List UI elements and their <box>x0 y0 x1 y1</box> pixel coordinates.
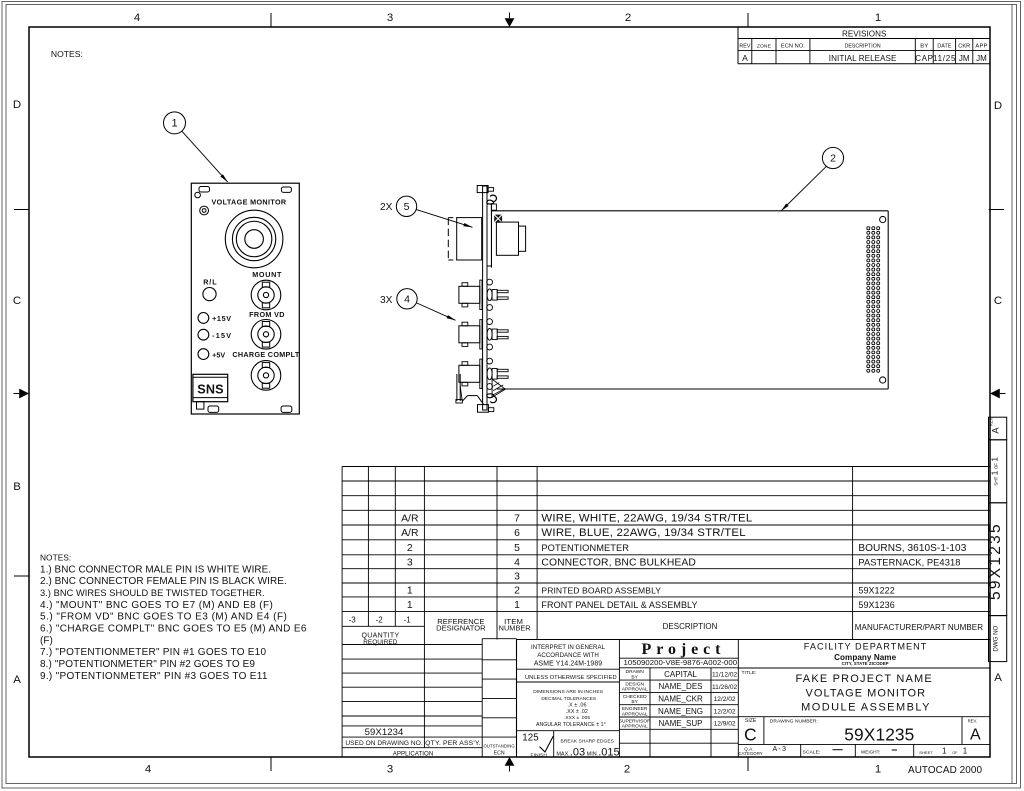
svg-text:ECN: ECN <box>494 751 505 757</box>
svg-text:CKR: CKR <box>958 44 970 50</box>
svg-text:DECIMAL TOLERANCES: DECIMAL TOLERANCES <box>541 696 596 701</box>
svg-text:2: 2 <box>624 764 630 776</box>
svg-text:BY: BY <box>920 44 928 50</box>
svg-text:3X: 3X <box>380 295 393 306</box>
svg-text:APPROVAL: APPROVAL <box>622 711 648 717</box>
svg-text:9.) "POTENTIONMETER" PIN #3 GO: 9.) "POTENTIONMETER" PIN #3 GOES TO E11 <box>40 671 268 682</box>
svg-text:A/R: A/R <box>401 513 419 524</box>
svg-text:1: 1 <box>963 747 968 756</box>
svg-text:59X1236: 59X1236 <box>858 600 894 610</box>
svg-text:ZONE: ZONE <box>757 44 772 50</box>
svg-text:CATEGORY: CATEGORY <box>739 751 763 756</box>
svg-text:105090200-V8E-9876-A002-000: 105090200-V8E-9876-A002-000 <box>624 658 738 667</box>
svg-text:VOLTAGE MONITOR: VOLTAGE MONITOR <box>806 687 926 699</box>
svg-text:5: 5 <box>514 543 520 554</box>
svg-text:NAME_ENG: NAME_ENG <box>658 707 703 716</box>
svg-text:8.) "POTENTIONMETER" PIN #2 GO: 8.) "POTENTIONMETER" PIN #2 GOES TO E9 <box>40 659 255 670</box>
svg-text:1: 1 <box>875 12 881 24</box>
svg-text:-2: -2 <box>376 616 384 625</box>
svg-text:OUTSTANDING: OUTSTANDING <box>484 744 516 749</box>
svg-text:ACCORDANCE WITH: ACCORDANCE WITH <box>537 652 599 659</box>
svg-text:FAKE PROJECT NAME: FAKE PROJECT NAME <box>796 673 932 685</box>
svg-text:A/R: A/R <box>401 528 419 539</box>
svg-text:NOTES:: NOTES: <box>40 553 71 563</box>
svg-text:7.) "POTENTIONMETER" PIN #1 GO: 7.) "POTENTIONMETER" PIN #1 GOES TO E10 <box>40 647 266 658</box>
svg-text:QTY. PER ASS'Y.: QTY. PER ASS'Y. <box>425 740 481 747</box>
svg-text:INITIAL RELEASE: INITIAL RELEASE <box>829 54 897 63</box>
svg-text:1: 1 <box>875 764 881 776</box>
svg-text:12/2/02: 12/2/02 <box>714 708 736 715</box>
svg-text:NOTES:: NOTES: <box>51 49 83 59</box>
svg-text:C: C <box>744 725 757 745</box>
svg-text:FRONT PANEL DETAIL & ASSEMBLY: FRONT PANEL DETAIL & ASSEMBLY <box>541 600 697 610</box>
svg-text:11/12/02: 11/12/02 <box>712 671 738 678</box>
svg-text:6.) "CHARGE COMPLT" BNC GOES T: 6.) "CHARGE COMPLT" BNC GOES TO E5 (M) A… <box>40 624 307 635</box>
svg-text:.XX ± .02: .XX ± .02 <box>566 709 588 715</box>
svg-text:11/26/02: 11/26/02 <box>712 684 738 691</box>
svg-text:.X ± .06: .X ± .06 <box>567 703 586 709</box>
svg-text:FINISH: FINISH <box>531 753 548 759</box>
svg-text:DESCRIPTION: DESCRIPTION <box>845 44 881 50</box>
svg-text:INTERPRET IN GENERAL: INTERPRET IN GENERAL <box>531 644 606 651</box>
svg-text:A: A <box>742 53 748 63</box>
svg-text:125: 125 <box>522 732 538 743</box>
svg-text:PASTERNACK, PE4318: PASTERNACK, PE4318 <box>858 558 960 568</box>
svg-text:CITY, STATE ZICODEP: CITY, STATE ZICODEP <box>842 661 889 666</box>
svg-text:SCALE:: SCALE: <box>803 750 821 756</box>
svg-text:APPLICATION: APPLICATION <box>393 751 434 758</box>
svg-text:1: 1 <box>407 586 413 597</box>
svg-text:A: A <box>970 727 981 744</box>
svg-text:12/2/02: 12/2/02 <box>714 696 736 703</box>
svg-text:DATE: DATE <box>937 44 951 50</box>
svg-text:6: 6 <box>514 528 520 539</box>
svg-text:FROM VD: FROM VD <box>249 310 284 319</box>
svg-text:59X1235: 59X1235 <box>987 524 1004 600</box>
svg-text:12/9/02: 12/9/02 <box>714 721 736 728</box>
svg-text:4: 4 <box>404 294 410 306</box>
svg-text:DESCRIPTION: DESCRIPTION <box>663 622 718 631</box>
svg-text:2X: 2X <box>380 202 393 213</box>
svg-text:-15V: -15V <box>212 331 231 340</box>
svg-text:4.) "MOUNT" BNC GOES TO E7 (M): 4.) "MOUNT" BNC GOES TO E7 (M) AND E8 (F… <box>40 600 273 611</box>
svg-text:4: 4 <box>134 12 140 24</box>
svg-text:-3: -3 <box>349 616 357 625</box>
svg-text:WIRE, BLUE, 22AWG, 19/34 STR/T: WIRE, BLUE, 22AWG, 19/34 STR/TEL <box>541 527 745 539</box>
svg-text:7: 7 <box>514 513 520 524</box>
svg-text:A: A <box>994 672 1002 684</box>
svg-text:DWG NO: DWG NO <box>993 625 1000 651</box>
svg-text:REVISIONS: REVISIONS <box>842 30 887 39</box>
svg-text:MANUFACTURER/PART NUMBER: MANUFACTURER/PART NUMBER <box>855 623 983 632</box>
svg-text:59X1222: 59X1222 <box>858 586 894 596</box>
svg-text:DIMENSIONS ARE IN INCHES: DIMENSIONS ARE IN INCHES <box>533 689 604 695</box>
svg-text:USED ON DRAWING NO.: USED ON DRAWING NO. <box>345 740 422 747</box>
svg-text:R/L: R/L <box>203 278 217 287</box>
svg-text:C: C <box>994 295 1002 307</box>
svg-text:5.) "FROM VD" BNC GOES TO E3 (: 5.) "FROM VD" BNC GOES TO E3 (M) AND E4 … <box>40 612 287 623</box>
svg-text:REV: REV <box>739 44 750 50</box>
svg-text:+5V: +5V <box>212 351 225 359</box>
svg-text:3: 3 <box>387 764 393 776</box>
svg-text:B: B <box>13 481 21 493</box>
svg-text:C: C <box>13 295 21 307</box>
svg-text:1.) BNC CONNECTOR MALE PIN IS: 1.) BNC CONNECTOR MALE PIN IS WHITE WIRE… <box>40 564 271 575</box>
svg-text:CONNECTOR, BNC BULKHEAD: CONNECTOR, BNC BULKHEAD <box>541 558 695 569</box>
svg-text:+15V: +15V <box>212 314 231 323</box>
svg-text:2.) BNC CONNECTOR FEMALE PIN I: 2.) BNC CONNECTOR FEMALE PIN IS BLACK WI… <box>40 576 287 587</box>
svg-text:CAP: CAP <box>915 54 933 63</box>
svg-text:SNS: SNS <box>197 382 223 396</box>
svg-text:PRINTED BOARD ASSEMBLY: PRINTED BOARD ASSEMBLY <box>541 586 661 596</box>
svg-text:NAME_DES: NAME_DES <box>658 682 702 691</box>
svg-text:BOURNS, 3610S-1-103: BOURNS, 3610S-1-103 <box>858 543 966 554</box>
svg-text:2: 2 <box>407 543 413 554</box>
svg-text:A-3: A-3 <box>772 745 786 753</box>
svg-text:APPROVAL: APPROVAL <box>622 687 648 693</box>
svg-text:1: 1 <box>514 600 520 611</box>
svg-text:CAPITAL: CAPITAL <box>664 670 697 679</box>
svg-text:ASME Y14.24M-1989: ASME Y14.24M-1989 <box>534 660 602 667</box>
svg-text:2: 2 <box>830 153 836 165</box>
svg-text:BREAK SHARP EDGES: BREAK SHARP EDGES <box>561 738 614 744</box>
svg-text:UNLESS OTHERWISE SPECIFIED: UNLESS OTHERWISE SPECIFIED <box>525 675 617 681</box>
svg-text:5: 5 <box>404 201 410 213</box>
svg-text:1: 1 <box>407 600 413 611</box>
svg-text:3: 3 <box>387 12 393 24</box>
svg-text:11/25: 11/25 <box>933 54 956 63</box>
svg-text:BY: BY <box>631 674 638 680</box>
svg-text:D: D <box>13 99 21 111</box>
svg-text:APPROVAL: APPROVAL <box>622 724 648 730</box>
svg-text:FACILITY DEPARTMENT: FACILITY DEPARTMENT <box>804 642 927 652</box>
svg-text:ENGINEER: ENGINEER <box>622 706 648 712</box>
svg-text:A: A <box>990 427 1000 434</box>
svg-text:WIRE, WHITE, 22AWG, 19/34 STR/: WIRE, WHITE, 22AWG, 19/34 STR/TEL <box>541 512 752 524</box>
svg-text:DESIGN: DESIGN <box>625 682 644 688</box>
svg-text:3: 3 <box>514 572 520 583</box>
svg-text:2: 2 <box>514 586 520 597</box>
svg-text:59X1234: 59X1234 <box>365 727 404 738</box>
svg-text:JM: JM <box>959 54 970 63</box>
svg-text:ECN NO.: ECN NO. <box>781 44 805 50</box>
svg-text:4: 4 <box>514 558 520 569</box>
svg-text:1: 1 <box>942 747 947 756</box>
svg-text:CHECKED: CHECKED <box>623 694 647 700</box>
svg-text:VOLTAGE MONITOR: VOLTAGE MONITOR <box>212 197 287 206</box>
svg-text:REV.: REV. <box>968 718 978 723</box>
svg-text:REV.: REV. <box>989 417 994 426</box>
svg-text:CHARGE COMPLT: CHARGE COMPLT <box>232 350 300 359</box>
svg-text:POTENTIONMETER: POTENTIONMETER <box>541 543 629 553</box>
svg-text:OF: OF <box>952 751 958 755</box>
svg-text:APP: APP <box>975 44 987 50</box>
svg-text:DRAWING NUMBER:: DRAWING NUMBER: <box>770 719 818 725</box>
svg-text:1: 1 <box>171 118 177 130</box>
svg-text:2: 2 <box>625 12 631 24</box>
svg-text:NUMBER: NUMBER <box>499 623 531 632</box>
svg-text:AUTOCAD 2000: AUTOCAD 2000 <box>908 765 982 776</box>
svg-text:WEIGHT:: WEIGHT: <box>861 750 880 755</box>
svg-text:(F): (F) <box>40 635 53 646</box>
svg-text:SHEET: SHEET <box>919 750 933 755</box>
svg-text:NAME_SUP: NAME_SUP <box>658 719 702 728</box>
svg-text:BY: BY <box>631 699 638 705</box>
svg-text:JM: JM <box>976 54 987 63</box>
svg-text:MOUNT: MOUNT <box>252 270 282 279</box>
svg-text:.XXX ± .005: .XXX ± .005 <box>564 715 590 721</box>
svg-text:NAME_CKR: NAME_CKR <box>658 694 703 703</box>
svg-text:59X1235: 59X1235 <box>844 725 914 745</box>
svg-text:A: A <box>13 674 21 686</box>
svg-text:3: 3 <box>407 558 413 569</box>
svg-text:REQUIRED: REQUIRED <box>363 639 397 646</box>
svg-text:SUPERVISOR: SUPERVISOR <box>619 718 651 724</box>
svg-text:-1: -1 <box>404 616 412 625</box>
svg-text:D: D <box>994 100 1002 112</box>
svg-text:SIZE: SIZE <box>745 718 757 724</box>
svg-text:ANGULAR TOLERANCE ± 1°: ANGULAR TOLERANCE ± 1° <box>536 722 606 728</box>
svg-text:DRAWN: DRAWN <box>626 669 645 675</box>
svg-text:DESIGNATOR: DESIGNATOR <box>436 623 486 632</box>
svg-text:TITLE:: TITLE: <box>742 670 757 676</box>
svg-text:4: 4 <box>145 764 151 776</box>
svg-text:3.) BNC WIRES SHOULD BE TWISTE: 3.) BNC WIRES SHOULD BE TWISTED TOGETHER… <box>40 588 265 598</box>
